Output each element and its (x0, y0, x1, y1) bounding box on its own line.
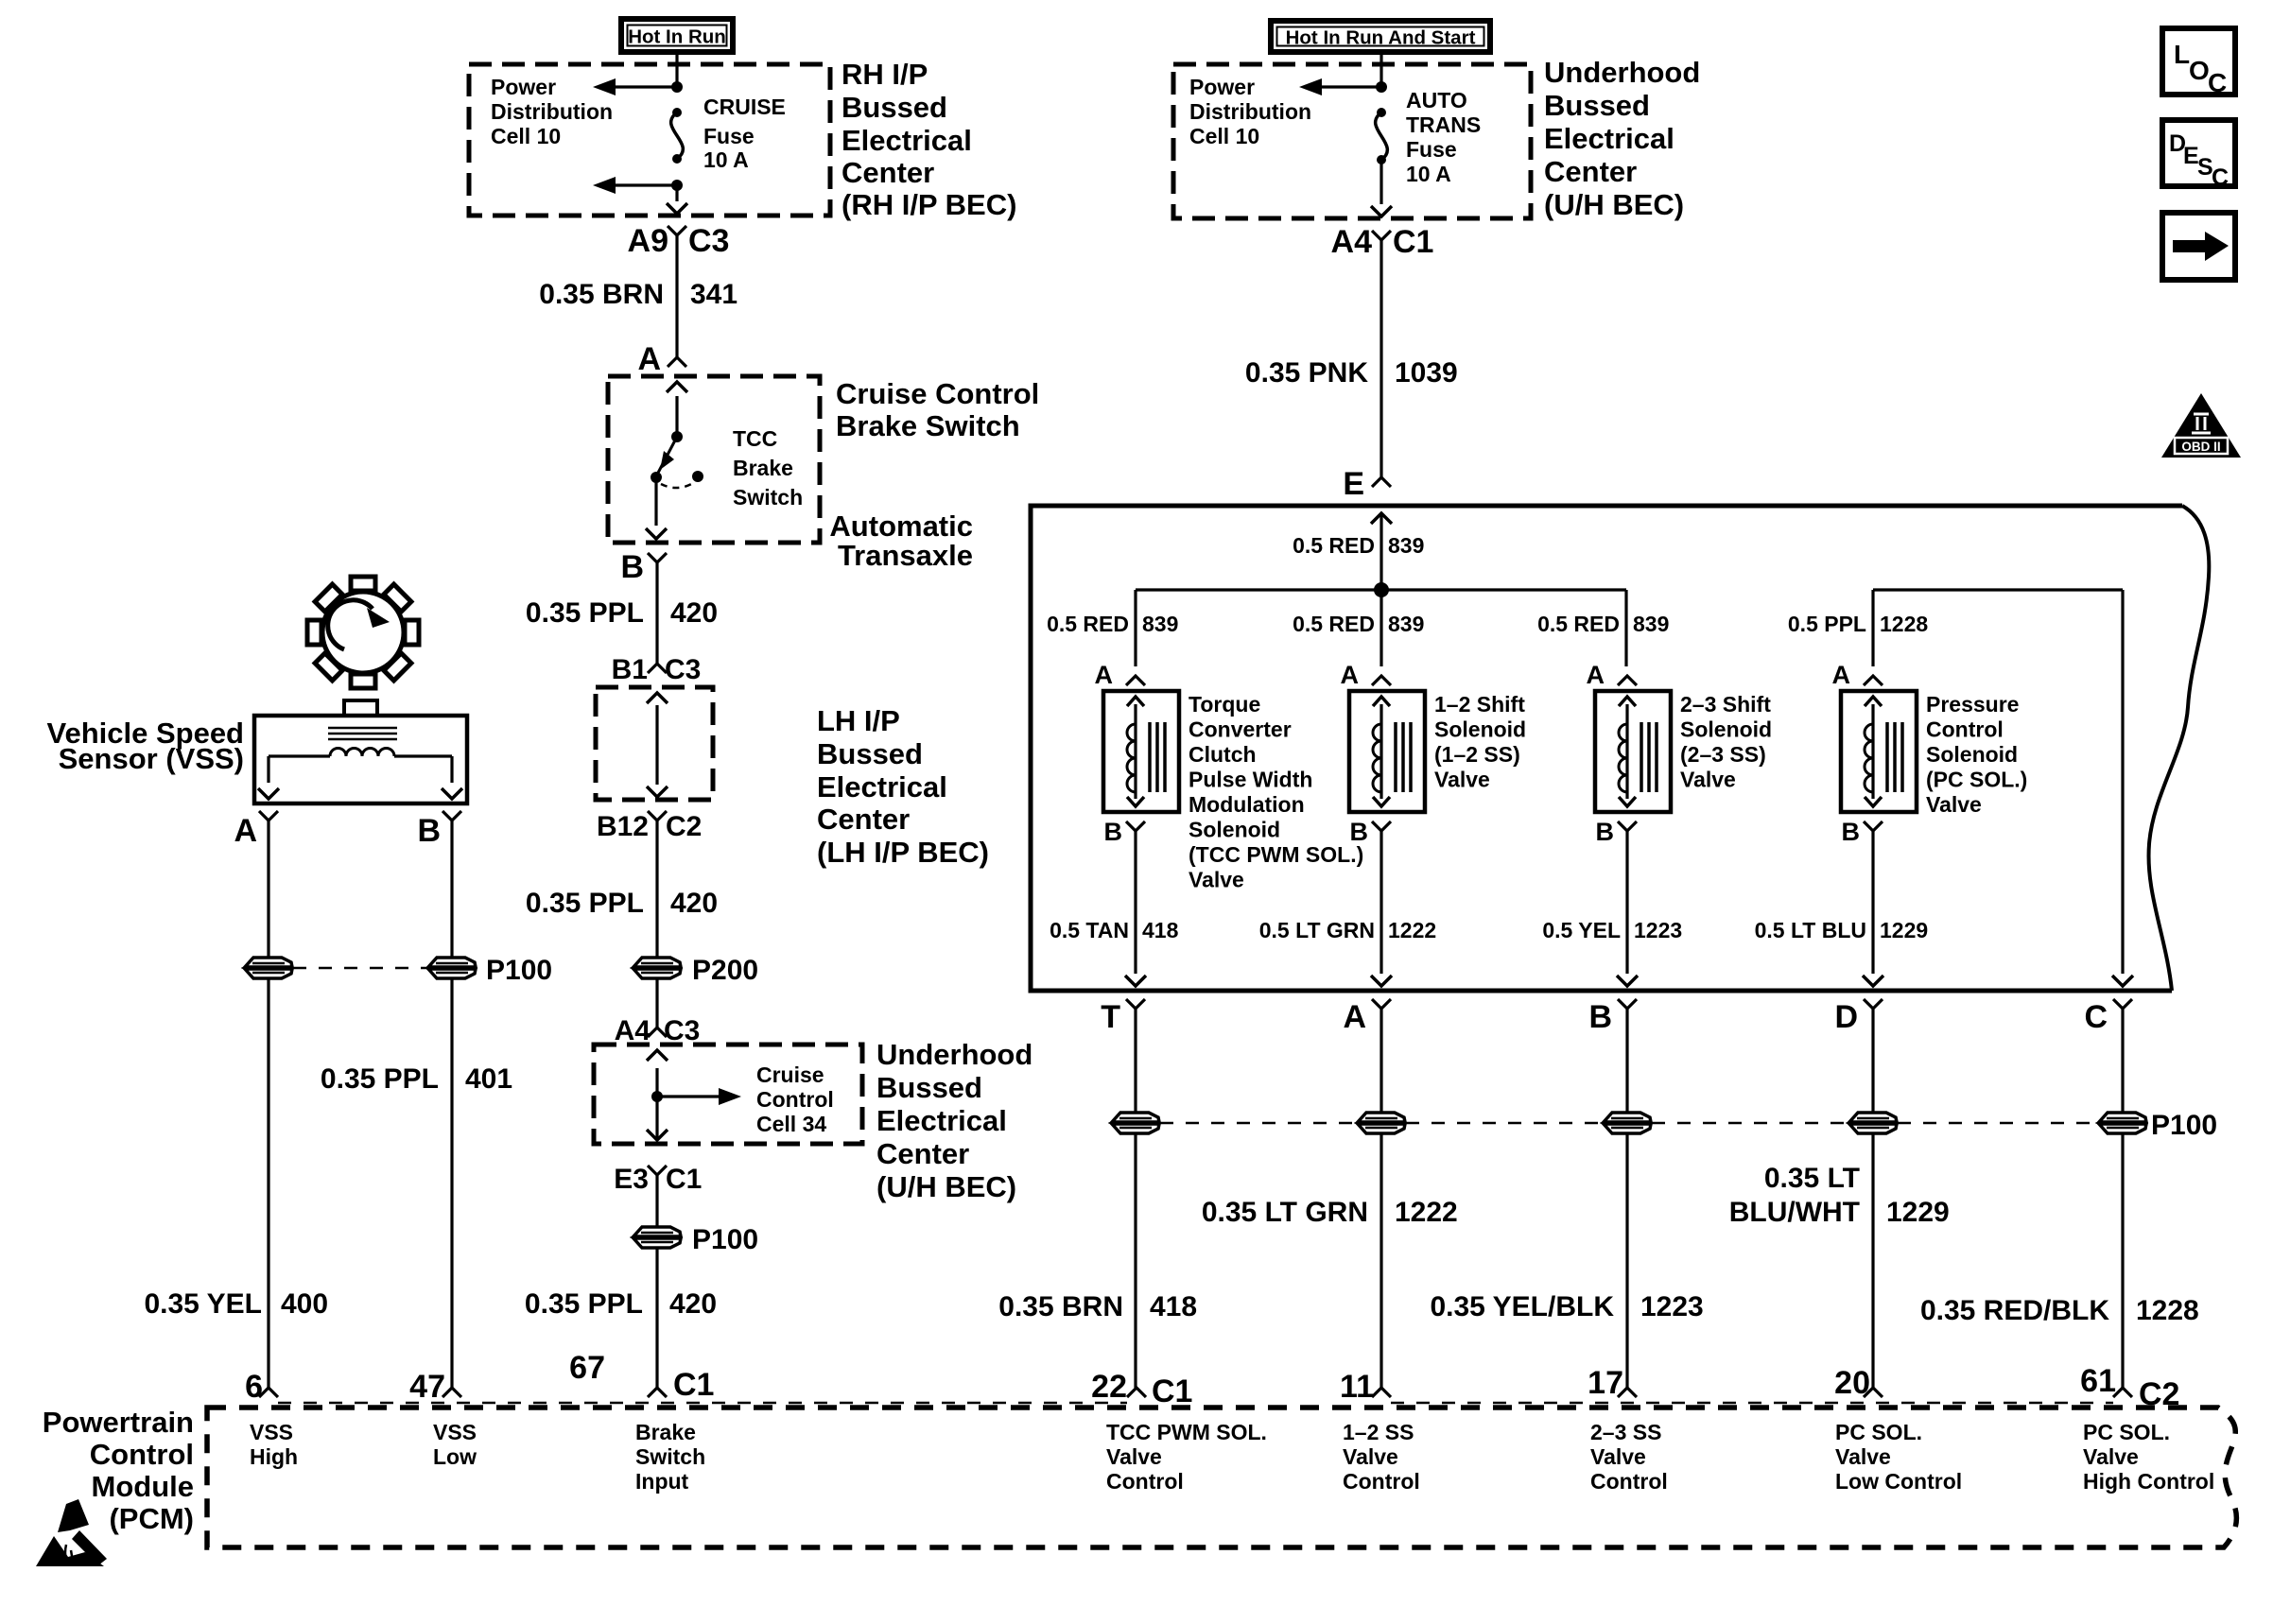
power label box "Hot In Run And Start" (1271, 21, 1490, 52)
down arrow exiting U/H BEC (647, 1130, 668, 1140)
svg-text:0.35 PPL: 0.35 PPL (526, 888, 644, 919)
svg-text:0.5 RED: 0.5 RED (1047, 612, 1129, 636)
svg-text:0.35 PPL: 0.35 PPL (526, 597, 644, 629)
svg-text:Electrical: Electrical (1544, 122, 1674, 155)
svg-text:22: 22 (1091, 1369, 1127, 1405)
svg-text:839: 839 (1142, 612, 1178, 636)
VSS mounting nub (344, 700, 377, 716)
svg-text:Valve: Valve (1106, 1444, 1162, 1469)
svg-text:67: 67 (569, 1350, 605, 1386)
svg-text:Center: Center (876, 1137, 969, 1170)
svg-text:0.35 LT: 0.35 LT (1764, 1163, 1860, 1194)
wire 0.35 PPL 401 (450, 978, 453, 1388)
svg-text:A: A (637, 341, 661, 377)
wire 0.35 LT GRN 1222 to PCM (1379, 1133, 1382, 1388)
svg-text:1223: 1223 (1634, 918, 1682, 942)
svg-text:B12: B12 (597, 811, 649, 842)
svg-text:0.5 PPL: 0.5 PPL (1788, 612, 1866, 636)
svg-text:Center: Center (1544, 155, 1637, 188)
svg-text:A: A (1832, 661, 1851, 689)
svg-text:C: C (2084, 999, 2108, 1035)
svg-text:0.35 YEL/BLK: 0.35 YEL/BLK (1430, 1291, 1614, 1322)
wire TCC PWM solenoid B output to case (1134, 831, 1136, 974)
wire to A4 C3 (655, 978, 658, 1028)
svg-text:0.5 RED: 0.5 RED (1293, 612, 1375, 636)
svg-text:Valve: Valve (1590, 1444, 1646, 1469)
svg-text:Valve: Valve (2083, 1444, 2139, 1469)
svg-text:Valve: Valve (1926, 792, 1982, 817)
svg-text:Switch: Switch (733, 485, 803, 510)
svg-text:11: 11 (1340, 1369, 1374, 1405)
switch contact dots (651, 472, 662, 483)
svg-text:Cruise Control: Cruise Control (836, 377, 1039, 410)
svg-text:420: 420 (670, 597, 718, 629)
svg-text:6: 6 (245, 1369, 263, 1405)
svg-text:(RH I/P BEC): (RH I/P BEC) (842, 188, 1016, 221)
svg-text:Brake: Brake (635, 1420, 696, 1444)
wire 0.35 LT BLU/WHT 1229 to PCM (1871, 1133, 1874, 1388)
svg-text:High Control: High Control (2083, 1469, 2214, 1494)
svg-text:Underhood: Underhood (876, 1038, 1032, 1071)
wire 1-2 SS solenoid B output to case (1379, 831, 1382, 974)
svg-text:B: B (620, 549, 644, 585)
svg-text:P100: P100 (2151, 1110, 2217, 1141)
Underhood BEC dashed box (top right) (1173, 64, 1531, 218)
svg-text:Solenoid: Solenoid (1680, 717, 1772, 742)
wire from terminal D to splice (1871, 1009, 1874, 1113)
splice P100 on VSS high (245, 958, 292, 978)
svg-text:Electrical: Electrical (842, 124, 972, 157)
LH I/P BEC dashed box (596, 687, 713, 800)
svg-text:Low: Low (433, 1444, 477, 1469)
VSS high wire down (267, 821, 269, 958)
wire 0.35 YEL 400 (267, 978, 269, 1388)
Powertrain Control Module dashed enclosure (207, 1408, 2236, 1547)
svg-text:LH I/P: LH I/P (817, 704, 900, 737)
svg-text:C2: C2 (666, 811, 702, 842)
svg-text:Fuse: Fuse (1406, 137, 1457, 162)
svg-text:Control: Control (1106, 1469, 1184, 1494)
svg-text:A9: A9 (628, 223, 668, 259)
svg-text:10 A: 10 A (1406, 162, 1451, 186)
svg-text:Hot In Run: Hot In Run (628, 26, 726, 48)
svg-text:(PCM): (PCM) (109, 1502, 194, 1535)
svg-text:418: 418 (1142, 918, 1179, 942)
connector C1 dashed line (278, 1402, 1127, 1405)
svg-text:B: B (1588, 999, 1612, 1035)
svg-text:C1: C1 (1152, 1373, 1192, 1409)
VSS gear (reluctor wheel) icon (307, 577, 419, 688)
svg-text:C3: C3 (664, 1015, 700, 1046)
svg-text:Pulse Width: Pulse Width (1189, 768, 1312, 792)
wire 0.35 RED/BLK 1228 to PCM (2121, 1133, 2124, 1388)
svg-text:Distribution: Distribution (491, 99, 613, 124)
svg-text:T: T (1101, 999, 1120, 1035)
wire down from contact (654, 477, 657, 526)
svg-text:Valve: Valve (1835, 1444, 1891, 1469)
double arrow wire through LH I/P BEC (647, 693, 668, 703)
connector C2 dashed line (1391, 1402, 2113, 1405)
svg-text:Switch: Switch (635, 1444, 705, 1469)
wavy right edge of transaxle box (2149, 506, 2210, 991)
svg-text:CRUISE: CRUISE (703, 95, 786, 119)
svg-text:A: A (1343, 999, 1366, 1035)
junction dot (1376, 81, 1387, 93)
svg-text:Control: Control (90, 1438, 194, 1471)
wire 0.35 YEL/BLK 1223 to PCM (1625, 1133, 1628, 1388)
splice P100 (cruise wire) (633, 1227, 681, 1248)
svg-text:C1: C1 (1393, 224, 1433, 260)
svg-text:A4: A4 (1331, 224, 1373, 260)
DESC reference box (2162, 120, 2235, 186)
wire from terminal A to splice (1379, 1009, 1382, 1113)
svg-text:341: 341 (690, 279, 737, 310)
svg-text:0.5 TAN: 0.5 TAN (1050, 918, 1129, 942)
svg-text:Valve: Valve (1343, 1444, 1398, 1469)
svg-text:1039: 1039 (1395, 357, 1458, 389)
svg-text:P100: P100 (486, 955, 552, 986)
wire from terminal B to splice (1625, 1009, 1628, 1113)
svg-text:Bussed: Bussed (1544, 89, 1650, 122)
svg-text:RH I/P: RH I/P (842, 58, 928, 91)
svg-text:10 A: 10 A (703, 147, 749, 172)
wire down / exit arrow (1379, 160, 1382, 204)
dashed alternate-throw arc (661, 482, 695, 488)
fuse CRUISE Fuse 10 A (672, 108, 682, 117)
Automatic Transaxle enclosure (1031, 506, 2182, 991)
svg-text:O: O (2189, 56, 2210, 85)
svg-text:0.35 BRN: 0.35 BRN (539, 279, 664, 310)
forward arrow box (2162, 213, 2235, 280)
wire from Hot In Run into RH I/P BEC (675, 52, 678, 87)
svg-text:C1: C1 (673, 1367, 714, 1403)
wire 0.5 RED 839 riser with up arrow (1379, 515, 1382, 590)
svg-text:1229: 1229 (1886, 1197, 1950, 1228)
VSS pickup coil (330, 749, 394, 757)
solenoid coil box (1103, 691, 1179, 812)
Underhood BEC dashed box (cruise) (594, 1045, 862, 1144)
VSS pickup coil core (328, 727, 397, 730)
svg-text:0.35 YEL: 0.35 YEL (144, 1288, 262, 1320)
svg-text:(1–2 SS): (1–2 SS) (1434, 742, 1520, 767)
wire 0.35 BRN 341 (675, 235, 678, 357)
junction 2 in RH I/P BEC (671, 180, 683, 191)
svg-text:Solenoid: Solenoid (1189, 818, 1280, 842)
svg-text:B: B (1842, 818, 1861, 846)
bus arrow left 2 (600, 183, 677, 186)
svg-text:1228: 1228 (2136, 1295, 2199, 1326)
svg-text:1–2 SS: 1–2 SS (1343, 1420, 1414, 1444)
svg-text:Power: Power (491, 75, 556, 99)
svg-text:(PC SOL.): (PC SOL.) (1926, 768, 2027, 792)
svg-text:A: A (234, 813, 257, 849)
svg-text:Center: Center (842, 156, 934, 189)
svg-text:61: 61 (2080, 1363, 2116, 1399)
switch blade with arrow (657, 437, 677, 475)
svg-text:P100: P100 (692, 1224, 758, 1255)
svg-text:B: B (1596, 818, 1615, 846)
svg-text:420: 420 (670, 888, 718, 919)
svg-text:1228: 1228 (1880, 612, 1928, 636)
splice P100 pass-through at x=1981 (1849, 1113, 1897, 1133)
svg-text:VSS: VSS (250, 1420, 293, 1444)
arrow to Cruise Control Cell 34 (657, 1095, 734, 1097)
wire branch to 1-2 SS solenoid A (1379, 590, 1382, 666)
svg-text:High: High (250, 1444, 298, 1469)
svg-text:Converter: Converter (1189, 717, 1292, 742)
svg-text:Fuse: Fuse (703, 124, 755, 148)
svg-text:0.35 LT GRN: 0.35 LT GRN (1202, 1197, 1368, 1228)
svg-text:Control: Control (756, 1087, 834, 1112)
RH I/P BEC dashed box (469, 64, 830, 216)
svg-text:0.5 YEL: 0.5 YEL (1542, 918, 1621, 942)
wire 0.35 PPL 420 (3) down to PCM pin 67 (655, 1248, 658, 1388)
wire with up arrow in U/H BEC (647, 1050, 668, 1061)
svg-text:Control: Control (1343, 1469, 1420, 1494)
wire from terminal C to splice (2121, 1009, 2124, 1113)
svg-text:B: B (1350, 818, 1369, 846)
svg-text:Hot In Run And Start: Hot In Run And Start (1286, 27, 1476, 49)
svg-text:P200: P200 (692, 955, 758, 986)
switch pivot dot (671, 431, 683, 442)
svg-text:0.5 LT GRN: 0.5 LT GRN (1259, 918, 1375, 942)
splice P200 (633, 958, 681, 978)
svg-text:Electrical: Electrical (817, 770, 947, 803)
splice P100 pass-through at x=1721 (1604, 1113, 1651, 1133)
wire into U/H BEC (1379, 52, 1382, 87)
svg-text:B1: B1 (612, 654, 648, 685)
splice P100 pass-through at x=1461 (1358, 1113, 1405, 1133)
bus arrow left (power distribution feed) (600, 85, 677, 88)
svg-text:0.35 PNK: 0.35 PNK (1245, 357, 1368, 389)
svg-text:B: B (1104, 818, 1123, 846)
svg-text:839: 839 (1388, 533, 1424, 558)
PC solenoid jumper bus (1873, 588, 2123, 591)
svg-text:Control: Control (1926, 717, 2004, 742)
wire PC SOL high control branch (2121, 590, 2124, 974)
svg-text:Brake: Brake (733, 456, 793, 480)
svg-text:2–3 SS: 2–3 SS (1590, 1420, 1661, 1444)
svg-text:B: B (417, 813, 441, 849)
svg-text:0.5 RED: 0.5 RED (1293, 533, 1375, 558)
dashed splice tie line P100 (293, 967, 427, 970)
OBD II triangle badge (2161, 393, 2241, 458)
svg-text:Bussed: Bussed (876, 1071, 982, 1104)
red feed bus (1136, 588, 1626, 591)
solenoid coil box (1595, 691, 1671, 812)
svg-text:Underhood: Underhood (1544, 56, 1700, 89)
svg-text:0.35 BRN: 0.35 BRN (998, 1291, 1123, 1322)
svg-text:Cell 10: Cell 10 (1189, 124, 1259, 148)
svg-text:Valve: Valve (1680, 768, 1736, 792)
svg-text:1229: 1229 (1880, 918, 1928, 942)
svg-text:PC SOL.: PC SOL. (1835, 1420, 1922, 1444)
dashed splice tie line (1160, 1122, 1357, 1125)
Cruise Control Brake Switch dashed box (608, 376, 820, 543)
svg-text:Cruise: Cruise (756, 1063, 824, 1087)
svg-text:0.35 RED/BLK: 0.35 RED/BLK (1920, 1295, 2109, 1326)
svg-text:Transaxle: Transaxle (838, 539, 973, 572)
svg-text:1223: 1223 (1640, 1291, 1704, 1322)
svg-text:Power: Power (1189, 75, 1255, 99)
switch wire with up arrow (667, 382, 687, 392)
wire 2-3 SS solenoid B output to case (1625, 831, 1628, 974)
svg-text:47: 47 (409, 1369, 445, 1405)
svg-text:(TCC PWM SOL.): (TCC PWM SOL.) (1189, 842, 1363, 867)
solenoid coil box (1841, 691, 1917, 812)
svg-text:Valve: Valve (1189, 868, 1244, 892)
svg-text:Sensor (VSS): Sensor (VSS) (59, 742, 244, 775)
svg-text:Valve: Valve (1434, 768, 1490, 792)
svg-text:0.35 PPL: 0.35 PPL (525, 1288, 643, 1320)
svg-text:Module: Module (92, 1470, 195, 1503)
bus arrow left (1307, 85, 1381, 88)
svg-text:Control: Control (1590, 1469, 1668, 1494)
svg-text:(U/H BEC): (U/H BEC) (1544, 188, 1684, 221)
wire to P100 (655, 1175, 658, 1227)
svg-text:VSS: VSS (433, 1420, 477, 1444)
svg-text:A: A (1587, 661, 1605, 689)
svg-text:Torque: Torque (1189, 692, 1260, 717)
LOC reference box (2162, 28, 2235, 95)
svg-text:Bussed: Bussed (842, 91, 947, 124)
wire PC SOL solenoid B output to case (1871, 831, 1874, 974)
svg-text:Electrical: Electrical (876, 1104, 1007, 1137)
fuse AUTO TRANS Fuse 10 A (1377, 108, 1386, 117)
wire 0.35 PPL 420 (1) (655, 562, 658, 664)
svg-text:2–3 Shift: 2–3 Shift (1680, 692, 1771, 717)
svg-text:E: E (1343, 466, 1364, 502)
svg-text:0.35 PPL: 0.35 PPL (321, 1063, 439, 1095)
splice P100 pass-through at x=2245 (2099, 1113, 2146, 1133)
splice P100 on VSS low (428, 958, 476, 978)
svg-text:D: D (1834, 999, 1858, 1035)
svg-text:Distribution: Distribution (1189, 99, 1311, 124)
svg-text:Center: Center (817, 803, 910, 836)
power label box "Hot In Run" (621, 19, 733, 52)
svg-text:A: A (1095, 661, 1114, 689)
svg-text:Automatic: Automatic (829, 510, 973, 543)
svg-text:A4: A4 (615, 1015, 651, 1046)
svg-text:TCC: TCC (733, 426, 777, 451)
svg-text:A: A (1341, 661, 1360, 689)
ESD sensitivity symbol (36, 1499, 107, 1566)
svg-text:C3: C3 (665, 654, 701, 685)
svg-text:E3: E3 (614, 1164, 649, 1195)
svg-text:Cell 10: Cell 10 (491, 124, 561, 148)
svg-text:(U/H BEC): (U/H BEC) (876, 1170, 1016, 1203)
svg-text:Powertrain: Powertrain (43, 1406, 194, 1439)
svg-text:C3: C3 (688, 223, 729, 259)
svg-text:Solenoid: Solenoid (1926, 742, 2018, 767)
svg-text:Solenoid: Solenoid (1434, 717, 1526, 742)
solenoid coil box (1349, 691, 1425, 812)
svg-text:839: 839 (1633, 612, 1669, 636)
wire branch to PC solenoid A (1871, 590, 1874, 666)
junction dot to cruise control (651, 1091, 663, 1102)
svg-text:Low Control: Low Control (1835, 1469, 1962, 1494)
svg-text:C: C (2212, 164, 2229, 191)
wire 0.35 PPL 420 (2) (655, 821, 658, 958)
svg-text:BLU/WHT: BLU/WHT (1729, 1197, 1860, 1228)
wire from terminal T to splice (1134, 1009, 1136, 1113)
svg-text:Brake Switch: Brake Switch (836, 409, 1020, 442)
wire down to box edge (675, 185, 678, 201)
svg-text:TCC PWM SOL.: TCC PWM SOL. (1106, 1420, 1267, 1444)
svg-text:Pressure: Pressure (1926, 692, 2019, 717)
svg-text:Cell 34: Cell 34 (756, 1112, 826, 1136)
Vehicle Speed Sensor (VSS) box (254, 716, 467, 803)
svg-text:(LH I/P BEC): (LH I/P BEC) (817, 836, 989, 869)
svg-text:1–2 Shift: 1–2 Shift (1434, 692, 1525, 717)
svg-text:TRANS: TRANS (1406, 112, 1481, 137)
svg-text:400: 400 (281, 1288, 328, 1320)
wire branch to TCC PWM solenoid A (1134, 590, 1136, 666)
svg-text:0.5 RED: 0.5 RED (1537, 612, 1620, 636)
svg-text:Bussed: Bussed (817, 737, 923, 770)
svg-text:418: 418 (1150, 1291, 1197, 1322)
svg-text:420: 420 (669, 1288, 717, 1320)
svg-text:(2–3 SS): (2–3 SS) (1680, 742, 1766, 767)
wire branch to 2-3 SS solenoid A (1624, 590, 1627, 666)
svg-text:C1: C1 (666, 1164, 702, 1195)
svg-text:1222: 1222 (1395, 1197, 1458, 1228)
svg-text:1222: 1222 (1388, 918, 1436, 942)
junction dot on red bus (1374, 582, 1389, 597)
svg-text:401: 401 (465, 1063, 512, 1095)
svg-text:839: 839 (1388, 612, 1424, 636)
svg-text:L: L (2174, 40, 2190, 69)
node/junction in RH I/P BEC (671, 81, 683, 93)
svg-text:AUTO: AUTO (1406, 88, 1467, 112)
wire 0.35 BRN 418 to PCM (1134, 1133, 1136, 1388)
wire 0.35 PNK 1039 (1379, 240, 1382, 477)
splice P100 pass-through at x=1201 (1112, 1113, 1159, 1133)
svg-text:Clutch: Clutch (1189, 742, 1257, 767)
VSS low wire down (450, 821, 453, 958)
svg-text:C: C (2208, 68, 2227, 97)
svg-text:OBD II: OBD II (2181, 440, 2220, 454)
svg-text:Modulation: Modulation (1189, 792, 1305, 817)
svg-text:0.5 LT BLU: 0.5 LT BLU (1755, 918, 1866, 942)
svg-text:PC SOL.: PC SOL. (2083, 1420, 2170, 1444)
svg-text:Input: Input (635, 1469, 689, 1494)
